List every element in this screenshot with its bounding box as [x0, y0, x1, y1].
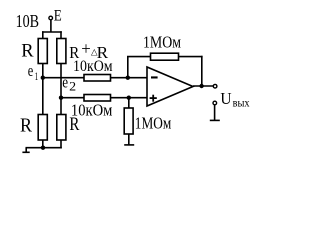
op-amp minus sign: [151, 76, 158, 78]
wire R3 to bottom bus: [42, 140, 44, 148]
ground output drop: [214, 105, 216, 121]
resistor R lower-right: [57, 115, 66, 141]
terminal lower circle: [213, 101, 217, 105]
svg-text:10В: 10В: [16, 11, 39, 31]
wire feedback up: [127, 57, 129, 78]
wire R4 to bottom bus: [60, 140, 62, 149]
wire 1M to ground: [128, 134, 130, 145]
node feedback tap: [126, 76, 130, 80]
wire e2 down to lower R: [60, 98, 62, 115]
resistor 10k lower: [84, 95, 111, 102]
wire e2 to resistor: [61, 97, 84, 99]
svg-text:e: e: [28, 61, 34, 80]
svg-text:2: 2: [69, 80, 76, 94]
wire R2 bottom to e2: [60, 64, 62, 98]
wire bottom bus: [26, 147, 62, 149]
wire 10k to op-amp plus input: [111, 97, 148, 99]
node e2 junction: [59, 96, 63, 100]
svg-text:R: R: [69, 114, 79, 135]
svg-text:1МОм: 1МОм: [135, 114, 172, 133]
node bottom bus junction: [41, 146, 45, 150]
node output junction: [199, 84, 203, 88]
op-amp plus sign: [150, 97, 157, 99]
wire 10k to op-amp minus input: [111, 77, 148, 79]
svg-text:1МОм: 1МОм: [143, 33, 181, 52]
wire E down: [50, 20, 52, 32]
op-amp U1: [147, 67, 193, 106]
wire feedback down to output: [201, 56, 203, 86]
svg-text:U: U: [220, 89, 231, 108]
ground left bar: [22, 151, 29, 153]
svg-text:+: +: [81, 39, 91, 59]
svg-text:10кОм: 10кОм: [73, 58, 113, 75]
svg-text:1: 1: [35, 71, 39, 83]
wire feedback top left: [127, 56, 151, 58]
wire op-amp output: [193, 85, 213, 87]
resistor 1M to ground: [124, 108, 133, 134]
wire R1 bottom to e1: [42, 64, 44, 78]
ground left drop: [25, 148, 27, 153]
wire e1 down to lower R: [42, 78, 44, 115]
wire e2 tap down to 1M: [128, 98, 130, 108]
wire top bar: [42, 31, 62, 33]
svg-text:e: e: [62, 73, 68, 92]
node 1M tap: [127, 96, 131, 100]
wire e1 to resistor: [43, 77, 84, 79]
resistor R lower-left: [38, 115, 47, 141]
svg-text:R: R: [20, 116, 32, 137]
resistor 10k upper: [84, 75, 111, 82]
wire drop left branch: [42, 31, 44, 38]
ground 1M bar: [124, 144, 134, 146]
resistor R upper-left: [38, 39, 47, 64]
resistor R+dR upper-right: [57, 39, 66, 64]
wire feedback top right: [179, 56, 203, 58]
resistor 1M feedback: [151, 53, 179, 60]
ground output bar: [210, 119, 220, 121]
terminal E circle: [49, 16, 53, 20]
wire drop right branch: [60, 31, 62, 38]
svg-text:вых: вых: [233, 96, 250, 110]
svg-text:R: R: [21, 42, 34, 62]
terminal output circle: [213, 84, 217, 88]
svg-text:E: E: [54, 8, 62, 25]
node e1 junction: [41, 76, 45, 80]
